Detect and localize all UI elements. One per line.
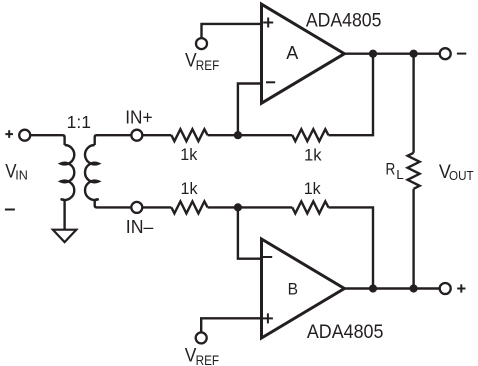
wire RL top lead — [412, 54, 414, 153]
op-amp U2 B triangle — [262, 239, 345, 338]
wire R4 to op-amp B output — [329, 207, 374, 288]
svg-text:1k: 1k — [180, 145, 197, 164]
wire op-amp B output — [344, 287, 439, 289]
svg-text:1k: 1k — [304, 179, 321, 198]
wire node N2 to op-amp B inverting input — [238, 207, 262, 258]
resistor R2 1k — [171, 201, 207, 213]
svg-text:L: L — [396, 167, 404, 182]
wire R1 to node N1 — [208, 134, 238, 136]
ground — [53, 230, 76, 242]
junction node B output — [369, 284, 377, 292]
wire IN+ to resistor R1 — [142, 134, 171, 136]
wire R3 to op-amp A output — [329, 54, 374, 136]
terminal VREF A — [196, 38, 207, 49]
transformer T1 primary winding — [61, 145, 75, 200]
wire IN- to resistor R2 — [142, 206, 171, 208]
plus sign VIN — [5, 130, 13, 138]
resistor R3 1k feedback A — [292, 129, 328, 141]
wire VREF B terminal to op-amp B non-inverting input — [201, 318, 261, 332]
wire node N1 to op-amp A inverting input — [238, 84, 262, 136]
svg-text:IN: IN — [15, 168, 28, 183]
minus sign OUT- — [457, 53, 466, 55]
svg-text:OUT: OUT — [449, 168, 474, 183]
svg-text:ADA4805: ADA4805 — [306, 10, 382, 31]
wire VREF A terminal to op-amp A non-inverting input — [202, 24, 262, 38]
terminal VIN+ — [19, 130, 30, 141]
svg-text:ADA4805: ADA4805 — [307, 322, 384, 343]
wire RL bottom lead — [412, 189, 414, 289]
op-amp A minus input mark — [266, 81, 275, 83]
wire transformer secondary bottom to IN- terminal — [95, 200, 132, 207]
wire R2 to node N2 — [208, 206, 238, 208]
resistor R1 1k — [171, 129, 207, 141]
junction node N2 — [234, 203, 242, 211]
terminal OUT+ — [440, 283, 451, 294]
svg-text:1:1: 1:1 — [67, 112, 91, 132]
op-amp U1 A triangle — [262, 4, 345, 103]
terminal IN+ — [131, 130, 142, 141]
terminal IN- — [131, 202, 142, 213]
svg-text:1k: 1k — [304, 145, 322, 164]
terminal VREF B — [196, 332, 207, 343]
resistor R4 1k feedback B — [292, 201, 328, 213]
wire transformer primary bottom to ground — [63, 200, 65, 230]
wire transformer secondary top to IN+ terminal — [95, 135, 132, 145]
plus sign OUT+ — [457, 284, 465, 292]
transformer T1 secondary winding — [85, 145, 99, 200]
svg-text:REF: REF — [196, 58, 220, 73]
wire op-amp A output — [344, 53, 439, 55]
svg-text:IN+: IN+ — [125, 107, 152, 127]
junction node RL bottom — [410, 284, 418, 292]
junction node A output — [369, 50, 377, 58]
svg-text:REF: REF — [196, 353, 220, 366]
op-amp A plus input mark — [263, 18, 273, 28]
svg-text:A: A — [286, 43, 298, 63]
svg-text:1k: 1k — [181, 179, 198, 198]
svg-text:IN–: IN– — [126, 217, 154, 237]
resistor RL — [408, 153, 420, 189]
junction node RL top — [410, 50, 418, 58]
op-amp B minus input mark — [263, 256, 272, 258]
minus sign VIN — [5, 209, 15, 211]
wire node N2 to resistor R4 — [238, 206, 292, 208]
wire VIN+ terminal to transformer primary top — [30, 135, 65, 145]
svg-text:R: R — [386, 161, 396, 179]
junction node N1 — [234, 131, 242, 139]
op-amp B plus input mark — [263, 313, 273, 323]
terminal OUT- — [440, 48, 451, 59]
wire node N1 to resistor R3 — [238, 134, 292, 136]
svg-text:B: B — [288, 280, 298, 299]
